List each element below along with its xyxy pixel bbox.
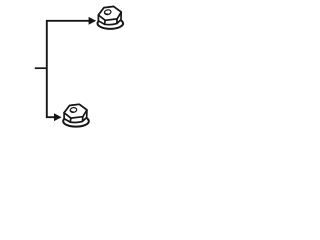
wire: vertical trunk with top and bottom branches [47, 21, 89, 117]
flange washer silhouette [98, 18, 124, 29]
hex top face [98, 7, 121, 21]
wire: middle stub [35, 67, 47, 69]
flange nut icon (top) [98, 7, 124, 29]
inner vertical edges [105, 19, 118, 24]
arrowhead top [89, 17, 97, 25]
hole [104, 9, 111, 15]
hole thread arc [105, 13, 108, 14]
arrowhead bottom [54, 113, 62, 121]
flange nut icon (bottom) [63, 104, 89, 126]
hex body silhouette [98, 7, 121, 25]
